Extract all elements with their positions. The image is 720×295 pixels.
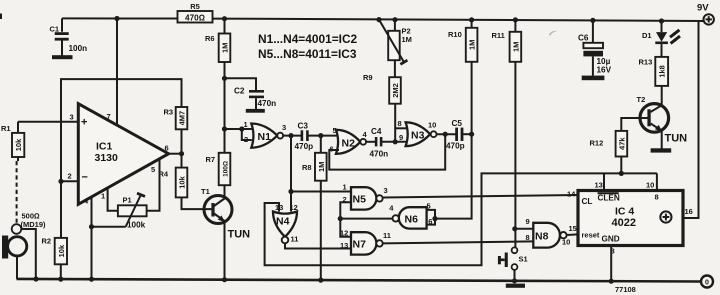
wire N1 pin2 bracket [242, 129, 252, 140]
svg-text:2: 2 [68, 172, 72, 181]
wire C4 to N3 inputs [381, 141, 406, 143]
wire N6 pins 5 6 bracket [427, 210, 436, 225]
svg-text:R2: R2 [42, 237, 52, 246]
node N1 input bracket [239, 126, 244, 131]
svg-text:+: + [81, 117, 87, 129]
svg-text:R9: R9 [363, 73, 373, 82]
svg-text:N8: N8 [535, 231, 549, 243]
wire top supply rail left segment [62, 17, 178, 19]
wire R12 to T2 base [621, 118, 647, 131]
wire R3 to output node [181, 129, 183, 167]
wire pin1 to P1 [108, 188, 118, 211]
svg-text:13: 13 [275, 203, 283, 212]
node N6 input bracket [432, 216, 437, 221]
svg-text:100n: 100n [69, 44, 88, 53]
resistor R11 [492, 20, 522, 62]
pencil smudge [549, 31, 557, 36]
svg-text:10: 10 [428, 120, 436, 129]
svg-text:4M7: 4M7 [178, 111, 187, 126]
gate N8 [533, 223, 566, 248]
wire R4 to T1 base [182, 197, 212, 209]
svg-text:TUN: TUN [228, 229, 251, 241]
gate N5 [351, 187, 383, 209]
wire R13 to T2 collector [661, 86, 663, 106]
wire N5 pin1 input [291, 191, 351, 193]
svg-text:3: 3 [384, 186, 388, 195]
wire R8 to ground rail [320, 181, 322, 280]
svg-text:10: 10 [562, 238, 570, 247]
wire R10 riser [471, 62, 473, 134]
svg-text:10k: 10k [57, 244, 66, 257]
svg-text:8: 8 [398, 119, 402, 128]
wire pin2 node to R2 [60, 181, 62, 238]
node ground rail pin4 [89, 277, 94, 282]
node R12 junction [619, 171, 624, 176]
svg-text:N5...N8=4011=IC3: N5...N8=4011=IC3 [258, 47, 357, 61]
svg-text:14: 14 [567, 189, 576, 198]
resistor R4 [159, 168, 188, 198]
svg-text:R6: R6 [205, 34, 215, 43]
svg-text:C2: C2 [234, 87, 245, 96]
node top rail at R10 [469, 17, 474, 22]
capacitor C2 [234, 87, 276, 110]
svg-text:IC1: IC1 [96, 141, 113, 153]
node ground rail R2 [58, 277, 63, 282]
wire N4 pin13 branch [265, 173, 657, 265]
node N4 pin12 junction [288, 189, 293, 194]
capacitor C1 [50, 18, 88, 55]
svg-text:1: 1 [244, 120, 248, 129]
gate N3 [406, 122, 437, 146]
svg-text:GND: GND [602, 234, 620, 243]
ground (C6) [582, 76, 605, 81]
svg-text:8: 8 [526, 233, 530, 242]
wire IC4 GND riser [610, 246, 612, 282]
wire T1 emitter to ground rail [224, 221, 226, 280]
svg-text:3: 3 [282, 123, 286, 132]
svg-text:1M: 1M [468, 40, 477, 50]
resistor R2 [42, 237, 68, 265]
svg-text:R12: R12 [590, 139, 604, 148]
resistor R5 [178, 2, 213, 23]
capacitor C3 [295, 122, 314, 151]
svg-text:10: 10 [646, 180, 654, 189]
svg-text:4: 4 [389, 203, 394, 212]
svg-text:−: − [82, 172, 88, 184]
node N1 output branch [288, 133, 293, 138]
resistor R9 [363, 60, 401, 103]
wire N8 output to IC4 reset [567, 233, 578, 236]
svg-text:2M2: 2M2 [391, 83, 400, 98]
svg-text:100k: 100k [127, 221, 146, 230]
node ground rail T1 [222, 277, 227, 282]
svg-text:TUN: TUN [665, 133, 688, 145]
node N3 output feedback branch [443, 132, 448, 137]
node ground rail R8 [318, 278, 323, 283]
gate N2 [336, 130, 366, 154]
svg-text:470Ω: 470Ω [185, 14, 205, 23]
wire T2 emitter to ground [661, 131, 663, 149]
capacitor C5 [446, 119, 465, 151]
gate N6 [393, 207, 427, 228]
svg-text:16V: 16V [597, 65, 612, 74]
svg-text:IC 4: IC 4 [615, 206, 634, 218]
wire pin4 riser [91, 197, 93, 279]
svg-text:7: 7 [107, 112, 111, 121]
wire N1 output to N5 pin1 riser [290, 136, 292, 192]
wire S1 to ground rail [514, 270, 516, 281]
ground (T2) [651, 148, 672, 152]
svg-text:C6: C6 [578, 33, 589, 42]
op-amp U1 IC1 3130 [78, 104, 168, 205]
svg-text:1M: 1M [511, 42, 520, 52]
svg-text:R5: R5 [190, 2, 200, 11]
wire pin2 stub [61, 180, 78, 182]
svg-text:N3: N3 [411, 130, 425, 142]
svg-text:10k: 10k [14, 138, 23, 151]
wire IC4 CLEN riser [603, 173, 605, 190]
svg-text:T2: T2 [637, 95, 646, 104]
node N3 input junction [393, 139, 398, 144]
svg-text:D1: D1 [642, 31, 652, 40]
svg-text:N1: N1 [258, 131, 272, 143]
svg-text:47k: 47k [617, 137, 626, 150]
switch S1 [498, 247, 528, 269]
svg-text:0: 0 [705, 279, 709, 286]
svg-text:R13: R13 [639, 58, 653, 67]
scan edge artifact [0, 14, 2, 20]
svg-text:N7: N7 [353, 238, 367, 250]
svg-text:8: 8 [655, 192, 659, 201]
svg-text:C4: C4 [371, 127, 382, 136]
wire C2 branch [225, 78, 257, 90]
node C2 tap [222, 76, 227, 81]
svg-text:R3: R3 [164, 108, 174, 117]
wire N6 output to N5 pin2 column [340, 218, 392, 220]
gate N1 [251, 124, 283, 148]
capacitor C4 [370, 127, 389, 158]
resistor R6 [205, 19, 230, 62]
potentiometer P2 [379, 20, 412, 65]
svg-text:11: 11 [383, 231, 391, 240]
svg-text:9: 9 [399, 133, 403, 142]
node C5 R10 junction [469, 132, 474, 137]
svg-text:1: 1 [343, 182, 347, 191]
node ground rail S1 [512, 278, 517, 283]
wire N3 pin8 stub [395, 127, 406, 129]
svg-text:1k8: 1k8 [658, 65, 667, 78]
wire R7 to T1 collector [224, 185, 226, 197]
resistor R1 [1, 122, 24, 157]
svg-text:16: 16 [685, 207, 693, 216]
svg-text:1: 1 [101, 192, 105, 201]
wire N1 input [225, 128, 252, 130]
svg-text:1M: 1M [221, 43, 230, 53]
ground (C2) [246, 109, 265, 113]
svg-text:3130: 3130 [95, 152, 119, 164]
node top rail at D1 [659, 18, 664, 23]
svg-text:N6: N6 [405, 214, 419, 226]
node N8 pin9 junction [512, 226, 517, 231]
svg-text:470p: 470p [295, 142, 314, 151]
wire IC1 pin7 riser [116, 19, 118, 126]
node pin4 wiper junction [89, 224, 94, 229]
svg-text:T1: T1 [201, 187, 210, 196]
potentiometer P1 [118, 193, 147, 229]
svg-text:CL: CL [582, 197, 593, 206]
node ground rail mic [33, 276, 38, 281]
svg-text:1M: 1M [317, 162, 326, 172]
svg-text:4022: 4022 [612, 217, 636, 229]
wire N2 pin6 feedback loop [329, 134, 445, 169]
wire wiper to pin4 [92, 226, 126, 228]
svg-text:10k: 10k [178, 175, 187, 188]
svg-text:11: 11 [291, 235, 299, 244]
wire microphone body to ground rail [16, 256, 18, 279]
wire R11 column to N8 pin9 and S1 [514, 62, 516, 248]
IC4 4022 [578, 191, 683, 246]
svg-text:R11: R11 [492, 31, 505, 40]
svg-text:13: 13 [595, 180, 603, 189]
svg-text:reset: reset [582, 230, 600, 239]
svg-text:15: 15 [569, 224, 577, 233]
svg-text:S1: S1 [519, 255, 528, 264]
svg-text:N4: N4 [276, 216, 290, 228]
terminal 9V [697, 3, 714, 25]
ground (S1) [506, 284, 525, 288]
node ground rail IC4 [609, 279, 614, 284]
svg-text:9V: 9V [697, 3, 709, 14]
wire R10 column to N6 inputs [435, 134, 472, 218]
node N1 input tap [222, 126, 227, 131]
wire N5 output to IC4 CL [383, 195, 578, 198]
svg-text:P1: P1 [123, 196, 132, 205]
svg-text:100Ω: 100Ω [223, 161, 230, 177]
wire R9 to N3 inputs [394, 104, 396, 142]
wire N7 output to N8 pin8 [383, 241, 534, 243]
svg-text:470n: 470n [370, 149, 389, 158]
svg-text:4: 4 [363, 130, 368, 139]
svg-text:12: 12 [340, 228, 348, 237]
LED D1 [642, 21, 680, 57]
svg-text:2: 2 [343, 195, 347, 204]
svg-text:C3: C3 [298, 122, 309, 131]
node top rail at C6 [590, 18, 595, 23]
svg-text:N5: N5 [353, 193, 367, 205]
node top rail at P2 [392, 17, 397, 22]
svg-text:R1: R1 [1, 124, 11, 133]
svg-text:5: 5 [151, 165, 155, 174]
wire N2 output to C4 [366, 141, 375, 143]
wire microphone upper terminal to ground rail [21, 229, 36, 279]
ground (C1) [52, 55, 73, 59]
wire dashed screen to microphone [17, 157, 18, 224]
capacitor C6 electrolytic [578, 20, 612, 75]
svg-text:R7: R7 [206, 155, 216, 164]
node N5 pin2 N7 pin12 junction [338, 216, 343, 221]
wire IC4 pin10 riser [656, 173, 658, 190]
wire feedback R3 top to pin2 [61, 79, 182, 181]
wire C5 to R10 column [462, 133, 472, 135]
svg-text:CLEN: CLEN [598, 194, 620, 203]
node top rail at R11 [513, 17, 518, 22]
wire IC1 pin3 input [18, 121, 78, 123]
resistor R3 [164, 107, 188, 129]
wire N4 pin12 riser [290, 192, 292, 212]
wire pin5 to P1 [147, 159, 160, 211]
svg-text:470p: 470p [446, 141, 465, 150]
resistor R8 [302, 136, 327, 181]
svg-text:3: 3 [70, 113, 74, 122]
node top rail at IC1 pin7 riser [114, 16, 119, 21]
svg-text:2: 2 [244, 135, 248, 144]
wire N1 output to C3 [283, 135, 301, 137]
wire N8 pin9 stub [515, 228, 534, 230]
svg-text:C5: C5 [452, 119, 463, 128]
terminal 0V [701, 276, 713, 288]
wire IC1 output pin6 [169, 153, 182, 155]
node output junction [179, 151, 184, 156]
node top rail at P2 wiper [376, 17, 381, 22]
gate N4 pointing down [273, 212, 297, 244]
wire 9V to IC4 pin16 [683, 21, 699, 218]
node R8 tap [318, 133, 323, 138]
microphone 500 ohm MD19 [2, 212, 46, 259]
resistor R12 [590, 131, 628, 157]
svg-text:77108: 77108 [615, 285, 636, 294]
svg-text:N1...N4=4001=IC2: N1...N4=4001=IC2 [258, 32, 358, 46]
node pin2 junction [58, 179, 63, 184]
resistor R10 [448, 20, 477, 62]
svg-text:N2: N2 [342, 137, 356, 149]
wire top supply rail right segment [213, 19, 704, 21]
svg-text:(MD19): (MD19) [21, 220, 47, 229]
gate N7 [351, 232, 383, 254]
resistor R13 [639, 57, 669, 86]
node top rail at R6 [222, 16, 227, 21]
transistor Q1 T1 [201, 187, 250, 241]
svg-text:R8: R8 [302, 163, 312, 172]
wire N3 output to C5 [437, 133, 457, 135]
wire N4 output to N7 pin13 [285, 243, 351, 248]
resistor R7 [206, 153, 231, 185]
transistor Q2 T2 [637, 95, 688, 145]
wire R2 to ground rail [60, 264, 62, 279]
wire R12 riser [620, 157, 622, 174]
svg-text:R10: R10 [448, 30, 462, 39]
svg-text:6: 6 [428, 217, 432, 226]
svg-text:6: 6 [165, 144, 169, 153]
wire bottom ground rail [17, 279, 701, 282]
svg-text:13: 13 [340, 241, 348, 250]
svg-text:470n: 470n [258, 99, 277, 108]
wire C3 to N2 [307, 135, 336, 137]
svg-text:9: 9 [526, 217, 530, 226]
svg-text:1M: 1M [402, 35, 412, 44]
wire R6 bottom to N1 input column [224, 62, 226, 153]
wire N5 pin2 branch [340, 202, 351, 237]
svg-text:C1: C1 [50, 25, 60, 34]
